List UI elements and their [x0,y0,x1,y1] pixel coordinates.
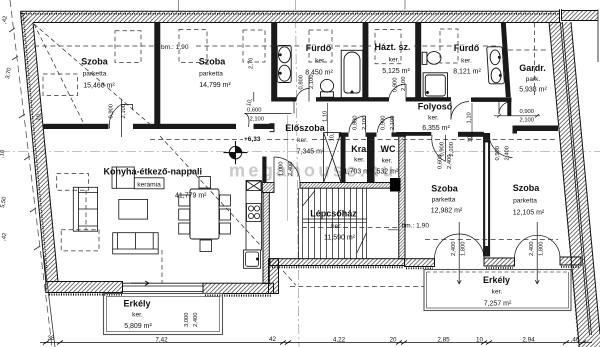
door WC [378,117,394,133]
terrace dashed lines [283,271,424,287]
door Szoba4 entry [489,134,513,158]
svg-text:ker.: ker. [354,157,365,164]
svg-text:0,600: 0,600 [438,154,444,169]
door Eloszoba-stair [274,157,300,183]
svg-text:41,779 m²: 41,779 m² [175,193,207,200]
svg-text:Szoba: Szoba [513,183,540,193]
svg-text:15,468 m²: 15,468 m² [83,83,115,90]
shaft with X [324,133,341,183]
svg-text:1,532 m²: 1,532 m² [371,169,399,176]
bm dashed lines [34,46,558,240]
svg-text:7,257 m²: 7,257 m² [484,301,512,308]
svg-text:7,42: 7,42 [155,337,168,344]
svg-text:0,900: 0,900 [108,104,114,119]
axis line vertical (section) [296,0,300,347]
door arrow [131,281,149,285]
svg-text:14,799 m²: 14,799 m² [199,82,231,89]
svg-text:1,10: 1,10 [467,112,473,123]
svg-text:ker.: ker. [297,137,308,144]
Furdo2 toilet [422,52,441,65]
Erkely left box [104,294,223,335]
svg-text:park.: park. [526,76,541,83]
slanted wall Furdo2/Gardr [501,23,511,98]
svg-text:12,982 m²: 12,982 m² [431,208,463,215]
door Szoba1 [109,99,132,137]
kitchen/stair wall [263,193,269,284]
Furdo1 bathtub [341,50,363,98]
dining table [190,189,219,239]
door Kra [349,116,366,133]
interior wall Hazt/Furdo2 [415,23,421,102]
svg-text:2,400: 2,400 [529,241,535,256]
svg-text:2,94: 2,94 [522,337,535,344]
svg-text:ker.: ker. [382,158,393,165]
svg-text:2,400: 2,400 [447,154,453,169]
coffee table [119,199,148,219]
svg-text:2,400: 2,400 [451,241,457,256]
svg-text:,46: ,46 [571,337,580,344]
svg-text:10,: 10, [330,133,336,141]
svg-text:10,: 10, [468,134,474,142]
svg-text:8,121 m²: 8,121 m² [453,69,481,76]
interior wall Szoba2/Furdo1 [271,23,277,102]
stair right wall / Szoba3 left wall [399,133,405,259]
dim chain left of Kra [327,103,329,136]
dim chain right side [471,103,473,140]
Erkely right box [424,270,571,311]
svg-text:1,000: 1,000 [279,161,285,176]
axis ticks above top wall [178,0,405,11]
Furdo1 double sink [277,46,291,83]
svg-text:parketta: parketta [199,71,223,78]
svg-text:10: 10 [476,337,484,344]
step wall piece [269,259,279,294]
svg-text:2,100: 2,100 [362,115,368,130]
svg-text:5,809 m²: 5,809 m² [124,323,152,330]
black pillar [390,178,401,192]
svg-text:Fürdő: Fürdő [454,43,480,53]
door Furdo2 [451,102,469,120]
right slanted neighbour wall band [549,10,600,347]
bedrooms/living divider wall [44,124,109,129]
svg-text:2,100: 2,100 [390,115,396,130]
svg-text:20: 20 [389,337,397,344]
svg-text:2,400: 2,400 [193,312,199,327]
svg-text:12,105 m²: 12,105 m² [513,210,545,217]
svg-text:Szoba: Szoba [431,184,458,194]
interior wall Furdo1/Hazt [363,23,369,102]
door Gardr [499,102,511,115]
Szoba3/Szoba4 divider wall [484,134,490,257]
svg-text:Konyha-étkező-nappali: Konyha-étkező-nappali [104,166,203,176]
svg-text:Erkély: Erkély [483,275,510,285]
top exterior wall [21,9,562,22]
svg-text:0,600: 0,600 [247,108,262,114]
top neighbour wall segment [562,11,599,21]
svg-text:2,70: 2,70 [249,58,255,69]
south wall band (living, right of door) [203,283,274,295]
svg-text:0,900: 0,900 [393,77,399,92]
svg-text:parketta: parketta [432,197,456,204]
axis line horizontal (section) [0,151,600,153]
svg-text:Fürdő: Fürdő [306,43,332,53]
svg-text:2,100: 2,100 [250,117,265,123]
bathrooms south wall segments [274,97,296,101]
svg-text:5,938 m²: 5,938 m² [519,87,547,94]
svg-text:Folyosó: Folyosó [418,102,453,112]
svg-text:38: 38 [47,335,55,342]
svg-text:3,000: 3,000 [184,312,190,327]
corridor south wall segments [396,132,431,136]
left exterior wall (slanted) [21,11,59,281]
svg-text:Gardr.: Gardr. [519,63,546,73]
svg-text:1,703 m²: 1,703 m² [344,169,372,176]
svg-text:Szoba: Szoba [81,57,108,67]
svg-text:0,900: 0,900 [520,109,535,115]
svg-text:ker.: ker. [389,57,400,64]
door Furdo1 [296,76,309,102]
svg-text:ker.: ker. [331,223,342,230]
svg-text:5,125 m²: 5,125 m² [382,68,410,75]
svg-text:ker.: ker. [461,58,472,65]
svg-text:11,590 m²: 11,590 m² [324,235,356,242]
balcony french doors Szoba3 [435,222,485,284]
wall caps at corridor [339,133,349,137]
balcony sliding door threshold [123,283,204,291]
svg-text:ker.: ker. [132,312,143,319]
svg-text:bm.: 1,90: bm.: 1,90 [402,223,430,230]
Furdo2 shower tray [423,73,447,98]
svg-text:2,100: 2,100 [309,74,315,89]
svg-text:parketta: parketta [83,71,107,78]
svg-text:Házt. sz.: Házt. sz. [374,42,410,52]
svg-text:1,800: 1,800 [538,241,544,256]
svg-text:2,100: 2,100 [520,118,535,124]
boundary tick slashes left [9,28,40,250]
svg-text:Kra.: Kra. [351,144,369,154]
svg-text:4,22: 4,22 [333,337,346,344]
site boundary dashed line left [10,0,52,347]
svg-text:0,900: 0,900 [495,146,501,161]
svg-text:0,800: 0,800 [299,75,305,90]
svg-text:Lépcsőház: Lépcsőház [310,209,357,219]
svg-text:WC: WC [381,144,396,154]
Kra left wall [341,133,346,183]
svg-text:2,400: 2,400 [288,161,294,176]
Erkely right: south stubs of Szoba3/Szoba4 [405,257,582,268]
Kra/WC wall [367,133,375,183]
elevation symbol [224,141,248,164]
svg-text:10,: 10, [36,112,43,121]
door Hazt [389,84,407,102]
svg-text:parketta: parketta [513,198,537,205]
svg-text:ker.: ker. [428,115,439,122]
svg-text:Szoba: Szoba [199,57,226,67]
svg-text:bm.: 1,90: bm.: 1,90 [161,44,189,51]
door Szoba2 [245,92,295,127]
Furdo1 toilet [320,79,333,97]
svg-text:2,100: 2,100 [449,142,455,157]
door Szoba3 entry [432,135,446,162]
svg-text:42: 42 [269,336,277,343]
Eloszoba/living wall [262,157,266,183]
svg-text:ker.: ker. [315,58,326,65]
chairs [179,177,231,252]
svg-text:1,10: 1,10 [323,111,329,122]
svg-text:1,800: 1,800 [460,241,466,256]
stair top wall [300,183,398,189]
sofa horizontal [113,233,159,254]
svg-text:0,900: 0,900 [440,142,446,157]
balcony french doors Szoba4 [515,222,561,284]
armchair [112,167,134,188]
svg-text:2,85: 2,85 [437,337,450,344]
interior wall Szoba1/Szoba2 [154,23,160,130]
svg-text:keramia: keramia [137,182,161,189]
svg-text:0,900: 0,900 [353,115,359,130]
svg-text:8,450 m²: 8,450 m² [305,70,333,77]
svg-text:2,100: 2,100 [121,104,127,119]
svg-text:6,355 m²: 6,355 m² [422,125,450,132]
stair south wall band [270,259,405,268]
svg-text:7,345 m²: 7,345 m² [297,149,325,156]
sofa vertical [73,187,97,231]
svg-text:+6,33: +6,33 [244,136,261,143]
Furdo2 double sink on slanted wall [487,47,505,84]
svg-text:2,100: 2,100 [401,76,407,91]
bottom-left wall band [46,282,123,295]
svg-text:Erkély: Erkély [123,299,150,309]
kitchen counter [244,181,262,269]
svg-text:2,400: 2,400 [504,146,510,161]
svg-text:Előszoba: Előszoba [285,123,326,133]
hatched corner at stair door [262,183,274,193]
svg-text:0,900: 0,900 [381,115,387,130]
svg-text:ker.: ker. [492,289,503,296]
